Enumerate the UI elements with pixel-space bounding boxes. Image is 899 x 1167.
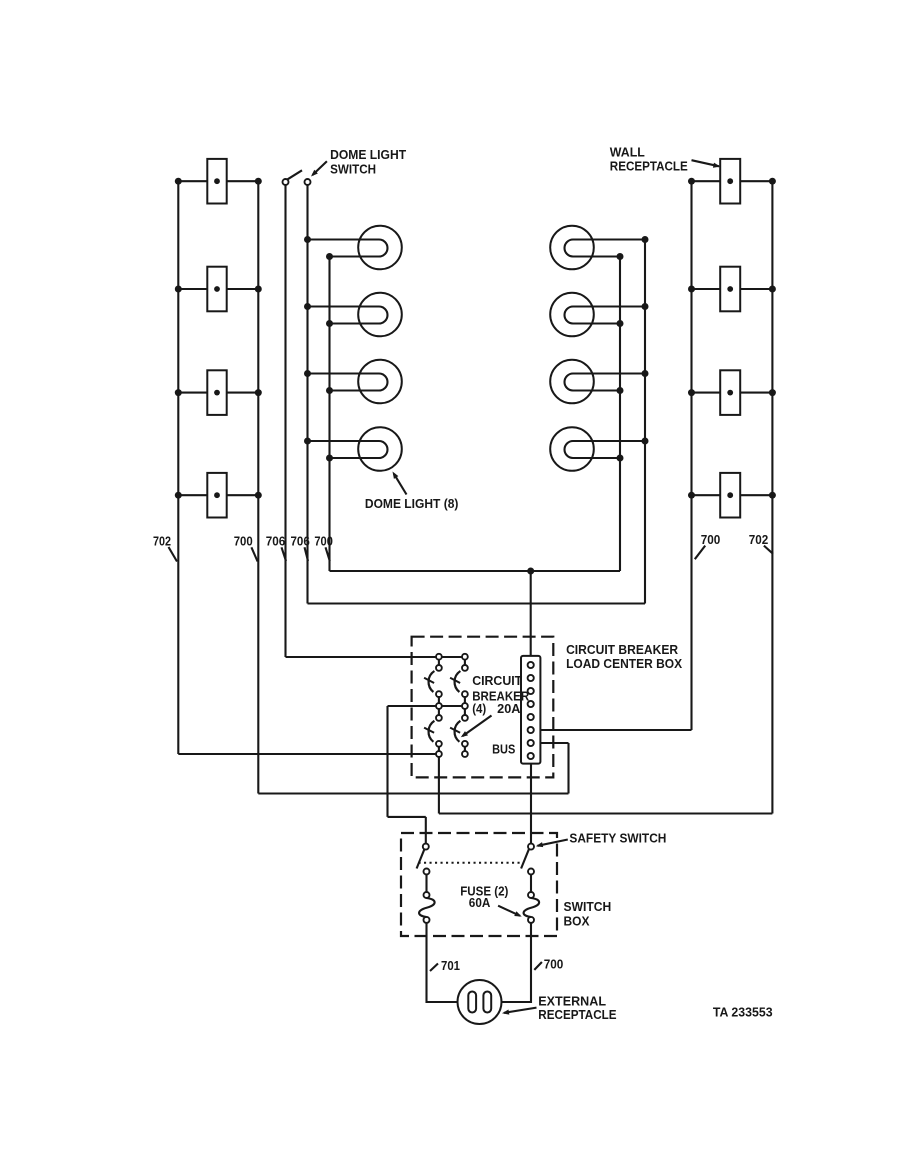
wall receptacle J3 bbox=[207, 370, 226, 415]
wall receptacle J7 bbox=[720, 370, 740, 415]
wire left receptacle row 4 horizontal bbox=[178, 494, 258, 496]
svg-text:700: 700 bbox=[544, 957, 564, 971]
wire switch-box feed vertical x=388 bbox=[386, 706, 388, 817]
junction dots dome light DS1 leads bbox=[304, 236, 311, 243]
wire net 706 lamp-feed horizontal y=603 bbox=[308, 602, 646, 604]
junction dots left row 4 bbox=[175, 492, 182, 499]
bus bar terminals (8) bbox=[528, 662, 534, 668]
wire switch-box feed jog y=817 bbox=[388, 816, 426, 818]
svg-text:(4): (4) bbox=[472, 702, 486, 716]
leader tick 700 c bbox=[326, 547, 330, 561]
wall receptacle J4 bbox=[207, 473, 226, 518]
wall receptacle J8 bbox=[720, 473, 740, 518]
junction dots right row 4 bbox=[688, 492, 695, 499]
dome light DS8 bbox=[550, 427, 594, 471]
wire net 702 left horizontal run to circuit breaker row 3 bbox=[178, 753, 439, 755]
junction dots left row 3 bbox=[175, 389, 182, 396]
dome light switch S1 throw contact bbox=[305, 179, 311, 185]
safety switch S2 pole A contact bbox=[423, 844, 429, 850]
wire dome light DS4 leads (left) bbox=[308, 441, 388, 458]
svg-text:SWITCH: SWITCH bbox=[330, 163, 376, 177]
junction dots dome light DS8 leads bbox=[642, 438, 649, 445]
svg-text:700: 700 bbox=[314, 534, 333, 548]
external receptacle J9 slot 1 bbox=[468, 992, 476, 1013]
leader dome light switch bbox=[313, 161, 327, 175]
fuse F2 element (S-curve) bbox=[524, 898, 540, 917]
junction dots dome light DS7 leads bbox=[642, 370, 649, 377]
circuit breaker terminals left column bbox=[436, 654, 442, 660]
svg-text:701: 701 bbox=[441, 959, 460, 973]
wire dome light DS6 leads (right) bbox=[565, 307, 646, 324]
wire net 700 lamp return riser (x=329) bbox=[328, 257, 330, 572]
junction dots right row 1 bbox=[688, 178, 695, 185]
svg-text:EXTERNAL: EXTERNAL bbox=[538, 994, 606, 1008]
svg-text:RECEPTACLE: RECEPTACLE bbox=[538, 1008, 616, 1022]
svg-text:DOME LIGHT (8): DOME LIGHT (8) bbox=[365, 497, 459, 511]
svg-text:BOX: BOX bbox=[564, 915, 591, 929]
leader tick 706 b bbox=[305, 547, 309, 561]
dome light DS1 bbox=[358, 226, 402, 270]
wire right receptacle row 3 horizontal bbox=[692, 392, 773, 394]
wire net 706 from switch pole down (x=285) bbox=[284, 185, 286, 657]
fuse F1 terminals bbox=[424, 892, 430, 898]
external receptacle J9 body bbox=[458, 980, 502, 1024]
dome light DS2 bbox=[358, 293, 402, 337]
svg-text:700: 700 bbox=[701, 533, 721, 547]
wire right receptacle row 1 horizontal bbox=[692, 180, 773, 182]
wire net 700 left horizontal run to bus bbox=[258, 792, 568, 794]
junction dots dome light DS4 leads bbox=[304, 438, 311, 445]
wire right lamp feed riser (x=645) bbox=[644, 240, 646, 604]
dome light DS3 bbox=[358, 360, 402, 404]
junction dots dome light DS6 leads bbox=[642, 303, 649, 310]
wire switch-box feed drop to safety switch bbox=[425, 817, 427, 844]
circuit breaker load center box (dashed enclosure) bbox=[412, 637, 554, 778]
leader tick 700 left bbox=[251, 547, 257, 561]
wire net 706 horizontal into circuit breaker row 1 bbox=[286, 656, 465, 658]
circuit breaker column CB2/CB4 connecting stubs bbox=[464, 657, 466, 668]
dome light DS4 bbox=[358, 427, 402, 471]
circuit breaker CB2 arc bbox=[455, 671, 461, 692]
wire net 700 lamp return horizontal y=571 bbox=[330, 570, 621, 572]
wall receptacle J6 bbox=[720, 267, 740, 312]
wire fuse F2 output down to external receptacle bbox=[500, 923, 531, 1002]
wire dome light DS2 leads (left) bbox=[308, 307, 388, 324]
bus bar body bbox=[521, 656, 540, 764]
junction dots right row 3 bbox=[688, 389, 695, 396]
wire net 702 right horizontal y=813 to breaker column bbox=[439, 812, 773, 814]
svg-text:702: 702 bbox=[153, 534, 171, 548]
svg-text:CIRCUIT: CIRCUIT bbox=[472, 674, 522, 688]
wall receptacle J2 bbox=[207, 267, 226, 312]
dome light switch S1 blade bbox=[288, 170, 302, 179]
wire dome light DS8 leads (right) bbox=[565, 441, 646, 458]
junction node lamp return to bus (y=571) bbox=[527, 568, 534, 575]
svg-text:700: 700 bbox=[234, 534, 253, 548]
wire dome light DS7 leads (right) bbox=[565, 374, 646, 391]
wire net 702 left riser (x=178) bbox=[177, 181, 179, 754]
circuit breaker CB4 tick bbox=[450, 728, 460, 733]
circuit breaker CB4 arc bbox=[455, 721, 461, 742]
safety switch S2 pole B blade bbox=[521, 849, 529, 868]
dome light DS6 bbox=[550, 293, 594, 337]
svg-text:60A: 60A bbox=[469, 896, 491, 910]
wire left receptacle row 3 horizontal bbox=[178, 392, 258, 394]
wire net 700 right riser (x=691) bbox=[690, 181, 692, 730]
circuit breaker CB2 tick bbox=[450, 678, 460, 683]
svg-text:20A: 20A bbox=[497, 702, 520, 716]
wire left receptacle row 1 horizontal bbox=[178, 180, 258, 182]
wire breaker row 2 horizontal y=706 bbox=[388, 705, 465, 707]
svg-text:TA 233553: TA 233553 bbox=[713, 1005, 773, 1019]
svg-text:LOAD CENTER BOX: LOAD CENTER BOX bbox=[566, 657, 683, 671]
wire right lamp return riser (x=620) bbox=[619, 257, 621, 572]
svg-text:RECEPTACLE: RECEPTACLE bbox=[610, 159, 688, 173]
safety switch S2 pole B contact bbox=[528, 844, 534, 850]
wire safety switch A to fuse F1 bbox=[425, 875, 427, 893]
wire right receptacle row 2 horizontal bbox=[692, 288, 773, 290]
junction dots dome light DS5 leads bbox=[642, 236, 649, 243]
wire dome light DS5 leads (right) bbox=[565, 240, 646, 257]
safety switch S2 pole A lower contact bbox=[424, 869, 430, 875]
wire right receptacle row 4 horizontal bbox=[692, 494, 773, 496]
leader external receptacle bbox=[504, 1008, 537, 1013]
svg-text:CIRCUIT BREAKER: CIRCUIT BREAKER bbox=[566, 643, 678, 657]
svg-text:702: 702 bbox=[749, 533, 769, 547]
fuse F1 element (S-curve) bbox=[419, 898, 435, 917]
circuit breaker column CB1/CB3 connecting stubs bbox=[438, 657, 440, 668]
wall receptacle J1 bbox=[207, 159, 226, 204]
circuit breaker terminals right column bbox=[462, 654, 468, 660]
wire center drop from y=571 junction to bus bbox=[530, 571, 532, 657]
svg-text:706: 706 bbox=[266, 534, 286, 548]
junction dots left row 2 bbox=[175, 286, 182, 293]
svg-text:706: 706 bbox=[291, 534, 310, 548]
svg-text:DOME LIGHT: DOME LIGHT bbox=[330, 148, 406, 162]
wire breaker column bottom stub down to y=813 bbox=[438, 754, 440, 814]
wire net 700 vertical x=568 up to bus terminal bbox=[567, 743, 569, 794]
fuse F2 terminals bbox=[528, 892, 534, 898]
leader tick 700 bottom bbox=[534, 962, 542, 970]
circuit breaker CB1 arc bbox=[429, 671, 435, 692]
svg-text:BUS: BUS bbox=[492, 742, 515, 756]
leader tick 700 right bbox=[695, 546, 705, 560]
circuit breaker CB1 tick bbox=[424, 678, 434, 683]
safety switch S2 pole A blade bbox=[417, 849, 425, 868]
leader tick 702 right bbox=[764, 546, 773, 554]
dome light switch S1 pole contact bbox=[283, 179, 289, 185]
wire safety switch B to fuse F2 bbox=[530, 875, 532, 893]
svg-text:SWITCH: SWITCH bbox=[564, 900, 612, 914]
junction dots left row 1 bbox=[175, 178, 182, 185]
circuit breaker CB3 arc bbox=[429, 721, 435, 742]
junction dots right row 2 bbox=[688, 286, 695, 293]
leader tick 701 bbox=[430, 964, 438, 972]
wire dome light DS1 leads (left) bbox=[308, 240, 388, 257]
wire net 700 left riser (x=258) bbox=[257, 181, 259, 793]
wire fuse F1 output down to external receptacle bbox=[427, 923, 460, 1002]
switch box (dashed enclosure) bbox=[401, 833, 557, 936]
junction dots dome light DS2 leads bbox=[304, 303, 311, 310]
wire bus bottom drop to safety switch bbox=[530, 764, 532, 844]
leader 60A to fuse F2 bbox=[498, 906, 520, 916]
wire left receptacle row 2 horizontal bbox=[178, 288, 258, 290]
wall receptacle J5 bbox=[720, 159, 740, 204]
wire dome light DS3 leads (left) bbox=[308, 374, 388, 391]
svg-text:SAFETY SWITCH: SAFETY SWITCH bbox=[569, 832, 666, 846]
junction dots dome light DS3 leads bbox=[304, 370, 311, 377]
leader tick 706 a bbox=[282, 547, 287, 561]
wire net 700 bus stub to x=568 bbox=[540, 742, 569, 744]
circuit breaker CB3 tick bbox=[424, 728, 434, 733]
leader dome light (8) bbox=[394, 474, 407, 495]
dome light DS7 bbox=[550, 360, 594, 404]
external receptacle J9 slot 2 bbox=[483, 992, 491, 1013]
svg-text:WALL: WALL bbox=[610, 146, 645, 160]
wire net 702 right riser (x=772) bbox=[771, 181, 773, 813]
safety switch S2 pole B lower contact bbox=[528, 869, 534, 875]
leader wall receptacle bbox=[692, 160, 720, 166]
leader 20A to breaker CB4 bbox=[463, 716, 492, 737]
dome light DS5 bbox=[550, 226, 594, 270]
wire net 700 right horizontal to bus bbox=[540, 729, 692, 731]
leader safety switch bbox=[538, 840, 568, 846]
leader tick 702 left bbox=[169, 547, 178, 562]
safety switch S2 mechanical link (dotted) bbox=[419, 862, 524, 864]
wire net 706 from switch throw down (x=307) bbox=[306, 185, 308, 604]
